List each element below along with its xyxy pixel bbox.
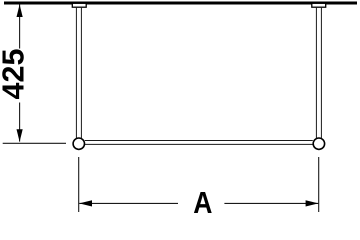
left ball joint (73, 138, 84, 149)
dimension line A right segment (224, 202, 318, 204)
wall line (4, 2, 357, 5)
extension line left horizontal (3, 142, 66, 144)
arrowhead down (17, 129, 23, 142)
right rod (316, 7, 321, 138)
left rod (76, 7, 81, 138)
dimension line A left segment (79, 202, 178, 204)
svg-text:425: 425 (0, 49, 31, 100)
extension line below right ball (318, 157, 320, 212)
right mounting plate (312, 3, 326, 7)
extension line below left ball (78, 157, 80, 212)
left mounting plate (72, 3, 86, 7)
right ball joint (313, 138, 324, 149)
dimension line 425 lower segment (19, 103, 21, 142)
svg-text:A: A (193, 186, 212, 220)
dimension line 425 upper segment (19, 5, 21, 49)
arrowhead right (306, 200, 319, 206)
arrowhead up (17, 5, 23, 18)
rail tube (85, 141, 313, 145)
arrowhead left (79, 200, 92, 206)
